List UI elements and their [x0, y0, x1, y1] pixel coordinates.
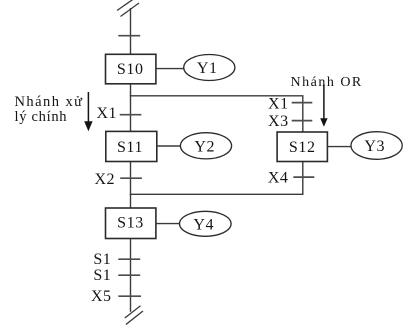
svg-text:Y1: Y1 — [197, 60, 218, 77]
svg-text:X2: X2 — [94, 171, 115, 188]
svg-text:S12: S12 — [289, 139, 316, 156]
svg-text:S13: S13 — [117, 215, 144, 232]
svg-text:Nhánh xử: Nhánh xử — [15, 94, 84, 110]
svg-text:Y4: Y4 — [193, 216, 214, 233]
svg-text:lý chính: lý chính — [15, 109, 68, 125]
svg-text:X3: X3 — [268, 113, 289, 130]
svg-text:X4: X4 — [268, 169, 289, 186]
svg-text:X5: X5 — [91, 288, 112, 305]
svg-text:S1: S1 — [93, 267, 111, 284]
svg-text:Y2: Y2 — [194, 138, 215, 155]
svg-text:S1: S1 — [93, 251, 111, 268]
svg-text:Nhánh OR: Nhánh OR — [291, 75, 363, 90]
svg-text:X1: X1 — [268, 95, 289, 112]
svg-text:S11: S11 — [117, 139, 143, 156]
svg-text:Y3: Y3 — [364, 138, 385, 155]
svg-text:S10: S10 — [117, 61, 144, 78]
svg-text:X1: X1 — [96, 105, 117, 122]
